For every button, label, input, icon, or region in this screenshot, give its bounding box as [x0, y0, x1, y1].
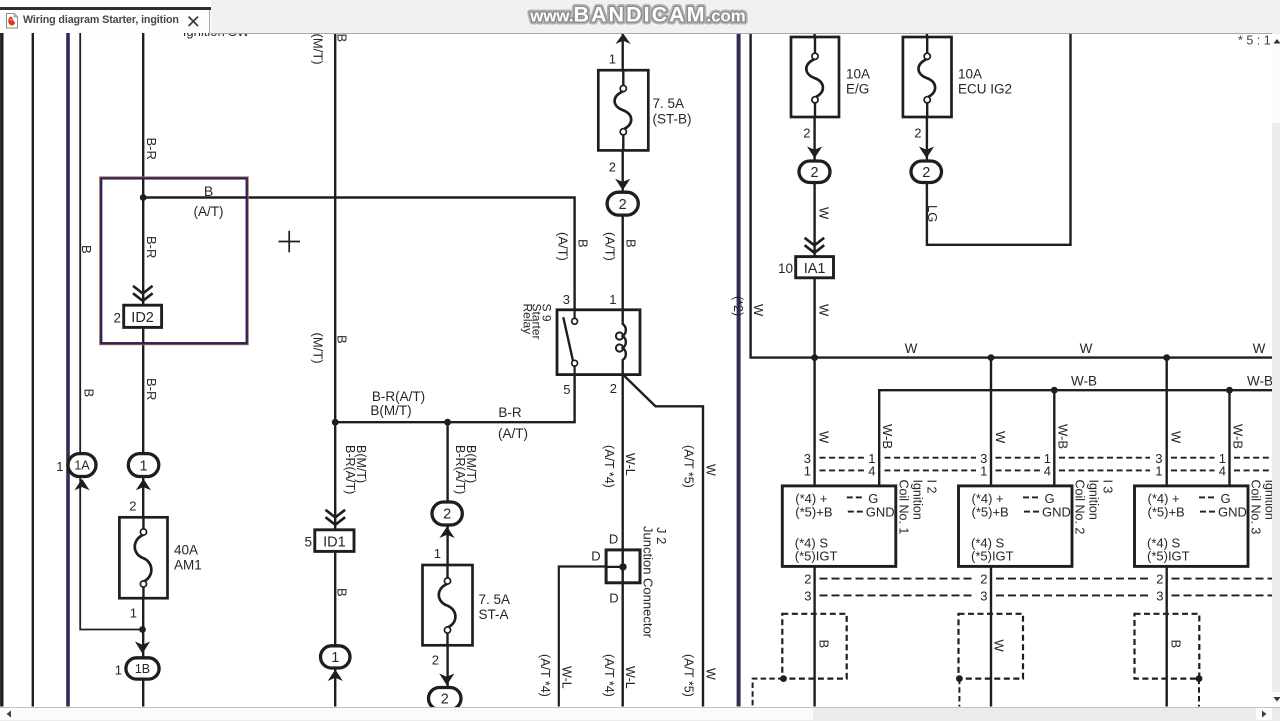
dashed pin row 2 below ignition coils [820, 578, 974, 580]
oval connector 2 above ST-A [432, 502, 462, 525]
dashed wire below distributor box3 [1198, 679, 1200, 707]
wire B (x=80) with jog to AM1 node [80, 33, 142, 630]
wire left vertical 2 [32, 33, 34, 707]
svg-text:(A/T *5): (A/T *5) [682, 654, 696, 697]
svg-text:(A/T *4): (A/T *4) [602, 654, 616, 697]
svg-text:D: D [591, 548, 600, 563]
svg-text:D: D [609, 532, 618, 547]
arrow up into oval 1 (below ID1) [328, 670, 343, 682]
svg-text:4: 4 [868, 464, 875, 479]
svg-text:1: 1 [804, 464, 811, 479]
junction connector J2 box [606, 550, 640, 583]
svg-text:(*5)+B: (*5)+B [1148, 504, 1185, 519]
fuse ST-B 7.5A [598, 70, 648, 150]
ignition coil I2 (No.1) box [782, 486, 896, 567]
svg-text:W: W [992, 640, 1007, 653]
arrow up into oval 2 (above ST-A) [439, 527, 454, 539]
svg-text:B: B [335, 335, 350, 344]
vertical scrollbar thumb [1272, 48, 1280, 123]
svg-text:(A/T): (A/T) [556, 232, 571, 261]
junction connector J2 stubs [622, 550, 624, 583]
svg-text:(*5)IGT: (*5)IGT [795, 548, 838, 563]
svg-text:3: 3 [563, 292, 570, 307]
svg-text:4: 4 [1219, 464, 1226, 479]
wire coil2 W-B drop (x=1054.3) [1053, 390, 1055, 486]
svg-text:1: 1 [434, 546, 441, 561]
node dot W bus 1 [811, 354, 818, 361]
svg-text:Coil No. 2: Coil No. 2 [1073, 480, 1087, 535]
arrow down into oval 2 (below ST-A) [439, 674, 454, 686]
svg-text:B: B [204, 183, 213, 199]
svg-text:ID1: ID1 [323, 534, 346, 550]
svg-text:2: 2 [609, 160, 616, 175]
svg-text:7. 5A: 7. 5A [479, 592, 511, 607]
oval connector 2 below ST-A [429, 688, 462, 710]
dashed wire below distributor box1 [753, 679, 784, 707]
svg-text:B: B [576, 239, 591, 248]
relay S9 contacts [572, 318, 578, 324]
dashed pin row 3-1 above ignition coils [820, 457, 865, 459]
svg-text:B: B [624, 239, 639, 248]
oval connector 1 below ID1 [321, 646, 351, 668]
svg-text:W: W [817, 431, 832, 444]
svg-text:(*5)IGT: (*5)IGT [1147, 548, 1190, 563]
svg-text:2: 2 [443, 507, 451, 523]
svg-text:W: W [993, 431, 1008, 444]
node dot W-B bus 2 [1226, 387, 1233, 394]
svg-text:I 2: I 2 [925, 480, 939, 494]
svg-text:ST-A: ST-A [479, 607, 509, 622]
svg-text:2: 2 [113, 310, 121, 325]
svg-text:B: B [335, 34, 350, 43]
svg-text:2: 2 [1156, 572, 1163, 587]
vertical scrollbar [1272, 33, 1280, 707]
svg-text:B-R: B-R [144, 236, 159, 258]
svg-text:1: 1 [980, 464, 987, 479]
svg-text:2: 2 [610, 381, 617, 396]
gray strip right of tab [211, 0, 1280, 34]
wire B (M/T) vertical (x=335) [334, 33, 336, 707]
horizontal scrollbar left button [0, 708, 17, 720]
oval connector 2 below ST-B [607, 192, 638, 215]
svg-text:2: 2 [129, 499, 136, 514]
vertical scrollbar bottom button [1272, 692, 1280, 707]
svg-text:3: 3 [1156, 588, 1163, 603]
dashed pin row 3 below ignition coils [820, 594, 974, 596]
fuse E/G 10A [791, 37, 839, 117]
svg-text:Junction Connector: Junction Connector [641, 526, 656, 639]
svg-text:LG: LG [925, 205, 940, 222]
svg-text:B(M/T): B(M/T) [354, 445, 368, 483]
node dot B-R / horizontal [140, 194, 147, 201]
wire horizontal B (A/T) to relay pin3 [143, 198, 574, 322]
dashed pin row 1-4 above ignition coils [820, 469, 865, 471]
svg-text:(A/T): (A/T) [603, 232, 618, 261]
svg-text:2: 2 [804, 572, 811, 587]
wire ST-A branch vertical (x=447) [446, 422, 448, 706]
node dot W-B bus 1 [1051, 387, 1058, 394]
node dot dashed box1 [780, 675, 787, 682]
svg-text:10: 10 [778, 261, 793, 276]
svg-text:1: 1 [1155, 464, 1162, 479]
node dot dashed box3 [1196, 675, 1203, 682]
double chevron arrow above ID1 [326, 510, 346, 518]
svg-text:1: 1 [56, 459, 63, 474]
svg-text:W-B: W-B [1071, 373, 1097, 388]
svg-text:W-B: W-B [1231, 424, 1246, 449]
svg-text:W: W [704, 464, 718, 476]
svg-text:B-R: B-R [498, 405, 522, 420]
dashed box below coil3 [1135, 614, 1200, 679]
svg-text:AM1: AM1 [174, 558, 202, 573]
svg-text:W: W [817, 207, 832, 220]
svg-text:B: B [79, 245, 94, 254]
svg-text:B: B [1169, 640, 1184, 649]
tab body [0, 10, 210, 34]
cursor crosshair [279, 241, 301, 243]
svg-text:W: W [751, 304, 766, 317]
svg-text:10A: 10A [846, 67, 870, 82]
arrow up into oval 1 (B-R wire) [136, 479, 151, 491]
ignition coil I3 (No.2) box [959, 486, 1073, 567]
svg-text:1: 1 [140, 458, 148, 474]
tab close button [186, 14, 201, 29]
svg-text:B: B [817, 640, 832, 649]
node dot B(M/T) branch [332, 419, 339, 426]
dashed box below coil1 [782, 614, 846, 679]
svg-text:B-R: B-R [144, 378, 159, 400]
svg-text:(M/T): (M/T) [311, 34, 326, 65]
svg-text:GND: GND [1042, 504, 1071, 519]
relay S9 box [557, 310, 640, 375]
node dot W bus 2 [988, 354, 995, 361]
svg-text:5: 5 [304, 534, 312, 549]
wire left page border [0, 33, 3, 707]
svg-text:2: 2 [803, 126, 810, 141]
svg-text:GND: GND [866, 504, 895, 519]
wire ST-B / relay pin1 main vertical (x=622.7) [622, 33, 624, 707]
svg-text:W-B: W-B [880, 424, 895, 449]
svg-text:(*2): (*2) [731, 296, 745, 316]
vertical scrollbar top button [1272, 34, 1280, 49]
wire coil3 W-B drop (x=1229.5) [1228, 390, 1230, 486]
svg-text:IA1: IA1 [804, 261, 826, 277]
arrow up at top of ST-B wire [616, 34, 631, 45]
svg-text:Coil No. 3: Coil No. 3 [1249, 480, 1263, 535]
svg-text:W-L: W-L [623, 666, 637, 689]
svg-text:J 2: J 2 [654, 527, 669, 544]
oval connector 1 on B-R wire [128, 454, 159, 477]
wire W bus from top left [751, 33, 1272, 358]
svg-text:3: 3 [804, 588, 811, 603]
svg-text:www.BANDICAM.com: www.BANDICAM.com [529, 3, 745, 27]
wire left navy vertical [66, 33, 70, 707]
node dot dashed box2 [956, 675, 963, 682]
wire ECU IG2 - LG loop [927, 33, 1071, 245]
arrow up into oval 1A [74, 479, 89, 491]
horizontal scrollbar thumb [17, 708, 813, 720]
svg-text:1A: 1A [74, 459, 90, 473]
relay S9 switch blade [563, 317, 573, 360]
svg-text:(*5)+B: (*5)+B [972, 504, 1009, 519]
svg-text:GND: GND [1218, 504, 1247, 519]
svg-text:I 3: I 3 [1101, 480, 1115, 494]
svg-text:W: W [817, 304, 832, 317]
node dot inside J2 [619, 563, 626, 570]
svg-text:2: 2 [441, 692, 449, 708]
svg-text:(ST-B): (ST-B) [653, 112, 692, 127]
selection highlight rectangle (A/T block) [100, 177, 248, 344]
arrow down into oval 2 (E/G) [807, 147, 822, 159]
svg-text:W-B: W-B [1056, 424, 1071, 449]
svg-text:1: 1 [130, 605, 137, 620]
svg-text:Coil No. 1: Coil No. 1 [897, 480, 911, 535]
wire relay pin2 diagonal to W (A/T*5) [623, 375, 703, 707]
svg-text:W: W [704, 668, 718, 680]
arrow down into oval 2 (ECU IG2) [919, 147, 934, 159]
svg-text:7. 5A: 7. 5A [653, 96, 685, 111]
svg-text:W: W [1253, 341, 1266, 356]
node dot AM1 bottom [139, 626, 146, 633]
fuse ECU IG2 10A [903, 37, 952, 117]
ignition coil I4 (No.3) box [1135, 486, 1249, 567]
wire J2 left branch W-L (A/T*4) [559, 567, 606, 707]
svg-text:ID2: ID2 [131, 310, 154, 326]
svg-text:2: 2 [810, 165, 818, 181]
svg-text:(A/T): (A/T) [194, 204, 224, 219]
horizontal scrollbar right button [1256, 708, 1273, 720]
oval connector 2 below E/G [799, 161, 830, 183]
svg-text:B-R(A/T): B-R(A/T) [372, 389, 425, 404]
svg-text:ECU IG2: ECU IG2 [958, 82, 1012, 97]
dashed wire below distributor box2 [958, 679, 960, 707]
oval connector 2 below ECU IG2 [911, 161, 942, 183]
svg-text:W: W [905, 341, 918, 356]
svg-text:W-B: W-B [1247, 373, 1273, 388]
wire coil2 vertical (x=991) [990, 358, 992, 707]
svg-text:2: 2 [980, 572, 987, 587]
node dot ST-A branch [444, 419, 451, 426]
svg-text:Ignition: Ignition [911, 480, 925, 520]
bandicam watermark [480, 0, 800, 33]
wire coil3 vertical (x=1166.7) [1165, 358, 1167, 707]
svg-text:1: 1 [115, 663, 122, 678]
svg-text:W-L: W-L [623, 453, 637, 476]
double chevron arrow above ID2 [133, 286, 153, 294]
wire navy right vertical (*2) [737, 33, 741, 707]
svg-text:W: W [1169, 431, 1184, 444]
svg-text:40A: 40A [174, 543, 198, 558]
svg-text:1: 1 [331, 650, 339, 666]
svg-text:4: 4 [1044, 464, 1051, 479]
svg-text:10A: 10A [958, 67, 982, 82]
svg-text:3: 3 [980, 588, 987, 603]
tab top dark border [0, 7, 211, 10]
svg-text:W-L: W-L [560, 666, 574, 689]
arrow down into oval 1B [135, 642, 150, 654]
svg-text:2: 2 [922, 165, 930, 181]
arrow down into oval 2 (ST-B) [615, 179, 630, 191]
svg-text:Ignition: Ignition [1087, 480, 1101, 520]
svg-text:W: W [1080, 341, 1093, 356]
connector IA1 [796, 257, 834, 278]
horizontal scrollbar [0, 707, 1280, 721]
svg-text:2: 2 [914, 126, 921, 141]
connector ID2 [124, 305, 162, 327]
relay S9 contact stubs [573, 310, 575, 319]
double chevron arrow above IA1 [805, 238, 825, 246]
wire horizontal B-R(A/T)/B(M/T) to relay pin5 [335, 363, 574, 422]
svg-text:B(M/T): B(M/T) [370, 403, 411, 418]
svg-text:(A/T *4): (A/T *4) [538, 654, 552, 697]
oval connector 1B [126, 658, 159, 679]
svg-text:1B: 1B [135, 662, 150, 676]
svg-text:5: 5 [563, 382, 570, 397]
svg-text:B: B [82, 389, 97, 398]
dashed box below coil2 [959, 614, 1024, 679]
oval connector 1A [68, 454, 96, 477]
svg-text:S 9: S 9 [540, 304, 554, 322]
svg-text:2: 2 [432, 652, 439, 667]
svg-text:B(M/T): B(M/T) [464, 445, 478, 483]
svg-text:(A/T *4): (A/T *4) [602, 445, 616, 488]
svg-text:(*5)+B: (*5)+B [795, 504, 832, 519]
tab title [23, 14, 179, 26]
relay S9 coil [623, 310, 626, 375]
svg-text:D: D [609, 591, 618, 606]
svg-text:1: 1 [609, 292, 616, 307]
fuse ST-A 7.5A [423, 565, 473, 645]
top chrome: white strip above tab [0, 0, 210, 7]
tab pdf icon [6, 13, 19, 29]
svg-text:B: B [335, 588, 350, 597]
svg-text:(A/T): (A/T) [498, 426, 528, 441]
connector ID1 [315, 530, 354, 552]
svg-text:B-R: B-R [144, 138, 159, 160]
svg-text:1: 1 [609, 51, 616, 66]
node dot W bus 3 [1163, 354, 1170, 361]
svg-text:E/G: E/G [846, 82, 869, 97]
fuse AM1 40A [119, 517, 167, 598]
svg-text:(*5)IGT: (*5)IGT [971, 548, 1014, 563]
wire B-R main vertical (x=143) [142, 33, 144, 707]
svg-text:(A/T *5): (A/T *5) [682, 445, 696, 488]
wire E/G - IA1 - coil1 vertical (x=814.6) [813, 33, 815, 707]
wire W-B bus [879, 390, 1272, 486]
svg-text:2: 2 [619, 197, 627, 213]
svg-text:* 5 : 1: * 5 : 1 [1238, 34, 1271, 48]
svg-text:(M/T): (M/T) [311, 333, 326, 364]
